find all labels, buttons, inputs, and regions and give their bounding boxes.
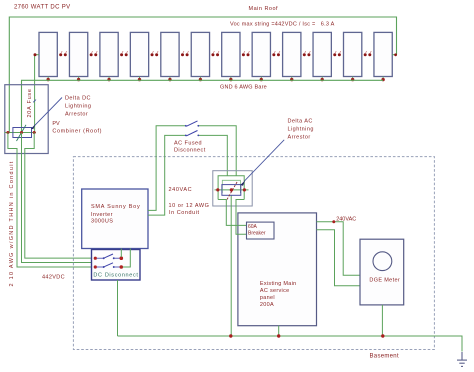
arrestor inner wiring loop	[222, 180, 240, 193]
node: wire blip on string conductor	[33, 100, 36, 103]
wire: string return conductor (right riser, top run, left drop)	[9, 17, 396, 133]
node: series junction 10a	[333, 51, 336, 56]
node: bus junction at panel stub	[277, 334, 280, 337]
DGE meter box	[360, 239, 404, 305]
PV module 10	[313, 32, 331, 76]
main AC service panel box	[238, 213, 317, 326]
wire: arrestor to breaker line 2	[236, 206, 247, 234]
svg-text:GND 6 AWG Bare: GND 6 AWG Bare	[220, 85, 267, 91]
node: bus junction at arrestor ground	[229, 334, 232, 337]
label: 60A Breaker	[248, 224, 266, 237]
wire: module 12 ground stub	[381, 77, 384, 82]
wire: module 5 ground stub	[168, 77, 171, 82]
wire: arrestor ground drop to bus	[230, 206, 232, 336]
svg-text:Delta DC: Delta DC	[65, 96, 91, 102]
node: arrestor middle terminal	[230, 188, 233, 191]
wire: module 3 ground stub	[107, 77, 110, 82]
node: series junction 9b	[307, 51, 310, 56]
wire: module 9 ground stub	[290, 77, 293, 82]
node: fuse middle terminal (ground)	[20, 131, 23, 134]
svg-text:DC Disconnect: DC Disconnect	[93, 273, 138, 279]
node: series junction 9a	[303, 51, 306, 56]
wire: DC disconnect ground drop	[117, 280, 119, 336]
svg-text:Voc max string =442VDC / Isc =: Voc max string =442VDC / Isc = 6.3 A	[230, 22, 335, 28]
wire: combiner drop left (return)	[8, 133, 94, 268]
svg-text:442VDC: 442VDC	[42, 275, 65, 281]
node: series junction 11a	[364, 51, 367, 56]
fuse F1 bus link	[5, 132, 37, 134]
svg-text:3000US: 3000US	[91, 218, 113, 224]
svg-text:AC Fused: AC Fused	[174, 141, 202, 147]
switch S2b AC fused disconnect pole	[185, 131, 199, 137]
PV module 11	[344, 32, 362, 76]
svg-text:SMA Sunny Boy: SMA Sunny Boy	[91, 204, 141, 210]
wire: module 11 ground stub	[351, 77, 354, 82]
node: series junction 3b	[125, 51, 128, 56]
svg-text:Delta AC: Delta AC	[288, 119, 313, 125]
wire: string positive from module 1 to fuse	[35, 55, 39, 133]
fuse F1 blade	[17, 125, 27, 141]
label: 10 or 12 AWG In Conduit	[169, 203, 210, 216]
node: series junction 4a	[151, 51, 154, 56]
svg-text:20A Fuse: 20A Fuse	[27, 88, 33, 117]
PV module 2	[69, 32, 87, 76]
node: series junction 2a	[90, 51, 93, 56]
wire: ground bus GND 6 AWG bare	[22, 80, 384, 132]
meter dial	[373, 252, 392, 271]
PV module 3	[100, 32, 118, 76]
PV module 7	[222, 32, 240, 76]
node: series junction 1b	[64, 51, 67, 56]
node: 240VAC service tap	[332, 220, 335, 223]
svg-text:DGE Meter: DGE Meter	[369, 278, 400, 284]
wire: bottom ground bus	[118, 336, 463, 352]
svg-text:Lightning: Lightning	[288, 127, 314, 133]
label: Existing Main AC service panel 200A	[260, 281, 297, 308]
node: series junction 1a	[59, 51, 62, 56]
node: series junction 3a	[120, 51, 123, 56]
PV module 9	[283, 32, 301, 76]
wire: combiner drop middle (ground)	[22, 133, 97, 263]
node: series junction 2b	[94, 51, 97, 56]
switch S2a AC fused disconnect pole	[185, 121, 199, 127]
label: AC Fused Disconnect	[174, 141, 206, 154]
wire: combiner drop right (positive)	[25, 133, 94, 259]
node: series junction 6b	[216, 51, 219, 56]
Delta AC lightning arrestor enclosure	[213, 171, 252, 206]
wire: module 12 right terminal stub	[392, 54, 396, 56]
svg-text:Inverter: Inverter	[91, 212, 113, 218]
PV combiner box	[5, 85, 48, 154]
node: bus junction at meter stub	[381, 334, 384, 337]
arrestor blade	[227, 181, 238, 199]
DC disconnect box	[92, 250, 141, 281]
PV module 8	[252, 32, 270, 76]
node: fuse right terminal	[33, 131, 36, 134]
svg-text:60A: 60A	[248, 224, 258, 230]
node: arrestor left terminal	[216, 188, 219, 191]
earth ground symbol	[457, 352, 467, 366]
node: series junction 10b	[338, 51, 341, 56]
PV module 5	[161, 32, 179, 76]
svg-text:Arrestor: Arrestor	[288, 134, 311, 140]
svg-text:Breaker: Breaker	[248, 231, 266, 237]
node: fuse left terminal	[6, 131, 9, 134]
leader arrow to Delta AC arrestor	[240, 140, 284, 186]
svg-text:In Conduit: In Conduit	[169, 210, 200, 216]
svg-text:Existing Main: Existing Main	[260, 281, 297, 287]
label: PV Combiner (Roof)	[52, 121, 102, 134]
svg-text:Main Roof: Main Roof	[249, 6, 279, 12]
svg-text:200A: 200A	[260, 302, 274, 308]
wire: panel to meter line 1	[317, 222, 361, 276]
PV module 1	[39, 32, 57, 76]
node: series junction 6a	[211, 51, 214, 56]
svg-text:Basement: Basement	[370, 354, 399, 360]
arrestor internal wiring loop	[215, 176, 249, 206]
wire: disconnect pole 1 to inverter	[120, 249, 122, 258]
node: series junction 7b	[247, 51, 250, 56]
arrestor module MOV block	[222, 185, 241, 196]
switch S1a pole	[94, 254, 123, 260]
label: Delta AC Lightning Arrestor	[288, 119, 314, 141]
fuse F1 holder	[13, 128, 32, 138]
wire: module 10 ground stub	[321, 77, 324, 82]
node: string right terminal	[394, 53, 397, 56]
svg-text:Disconnect: Disconnect	[174, 148, 206, 154]
node: series junction 5a	[181, 51, 184, 56]
wire: inverter AC line 1 to AC disconnect	[148, 126, 236, 211]
wire: meter drop to bus	[381, 305, 383, 336]
node: series junction 5b	[186, 51, 189, 56]
svg-text:Combiner (Roof): Combiner (Roof)	[52, 128, 102, 134]
wire: module 4 ground stub	[138, 77, 141, 82]
wire: service panel ground stub	[278, 326, 280, 336]
basement dashed boundary	[73, 157, 434, 350]
svg-text:AC service: AC service	[260, 288, 290, 294]
svg-text:240VAC: 240VAC	[169, 187, 193, 193]
wire: disconnect pole 2 to inverter	[123, 249, 131, 268]
wire: module 8 ground stub	[260, 77, 263, 82]
node: string left terminal	[34, 53, 37, 56]
node: series junction 8b	[277, 51, 280, 56]
wire: module 6 ground stub	[199, 77, 202, 82]
label: SMA Sunny Boy Inverter 3000US	[91, 204, 141, 224]
node: series junction 4b	[155, 51, 158, 56]
PV module 12	[374, 32, 392, 76]
node: series junction 7a	[242, 51, 245, 56]
wire: module 7 ground stub	[229, 77, 232, 82]
PV module 6	[191, 32, 209, 76]
leader arrow to Delta DC arrestor	[31, 98, 62, 130]
inverter U1 SMA Sunny Boy box	[82, 189, 148, 249]
svg-text:PV: PV	[52, 121, 60, 127]
svg-text:Arrestor: Arrestor	[65, 112, 88, 118]
label: Delta DC Lightning Arrestor	[65, 96, 91, 118]
wire: module 2 ground stub	[77, 77, 80, 82]
svg-text:panel: panel	[260, 295, 275, 301]
node: series junction 8a	[272, 51, 275, 56]
switch S1b pole	[94, 263, 123, 269]
wire: module 1 ground stub	[46, 77, 49, 82]
breaker CB1 60A box	[247, 222, 275, 239]
svg-text:240VAC: 240VAC	[336, 217, 356, 223]
svg-text:2 10 AWG w/GND THHN in Conduit: 2 10 AWG w/GND THHN in Conduit	[9, 160, 15, 286]
node: series junction 11b	[368, 51, 371, 56]
node: arrestor right terminal	[243, 188, 246, 191]
svg-text:Lightning: Lightning	[65, 104, 91, 110]
wire: inverter AC line 2 to AC disconnect	[148, 135, 227, 215]
wire: arrestor to breaker line 1	[226, 206, 246, 225]
wire: panel to meter line 2	[317, 230, 361, 286]
svg-text:2760 WATT DC PV: 2760 WATT DC PV	[14, 5, 71, 11]
PV module 4	[130, 32, 148, 76]
svg-text:10 or 12 AWG: 10 or 12 AWG	[169, 203, 210, 209]
